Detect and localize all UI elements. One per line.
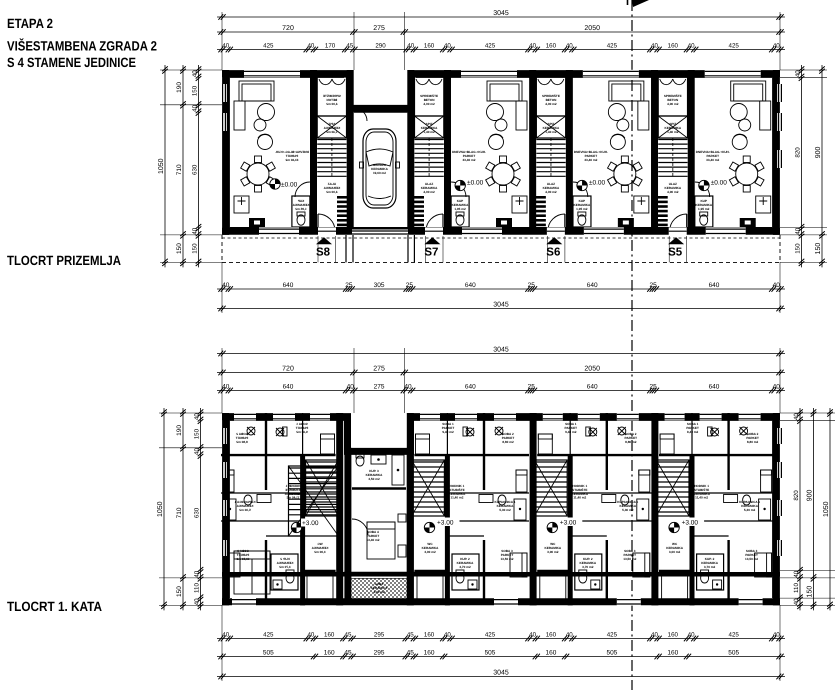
svg-text:150: 150 — [815, 243, 822, 255]
svg-text:40: 40 — [191, 70, 198, 77]
svg-text:+3.00: +3.00 — [437, 520, 454, 527]
svg-text:13,40 m2: 13,40 m2 — [366, 538, 379, 542]
svg-text:710: 710 — [176, 164, 183, 175]
svg-text:S5: S5 — [668, 247, 683, 259]
svg-text:150: 150 — [794, 243, 801, 254]
svg-text:3045: 3045 — [493, 346, 509, 353]
svg-text:190: 190 — [176, 82, 183, 93]
svg-text:150: 150 — [191, 85, 198, 96]
svg-text:1050: 1050 — [157, 501, 164, 517]
svg-text:425: 425 — [729, 631, 740, 638]
svg-text:150: 150 — [191, 243, 198, 254]
svg-text:40: 40 — [222, 42, 229, 49]
svg-text:295: 295 — [374, 631, 385, 638]
svg-text:640: 640 — [465, 282, 476, 289]
svg-text:160: 160 — [668, 42, 679, 49]
svg-text:40: 40 — [773, 42, 780, 49]
svg-text:40: 40 — [407, 42, 414, 49]
svg-text:900: 900 — [806, 489, 813, 501]
svg-text:640: 640 — [587, 282, 598, 289]
svg-text:190: 190 — [176, 425, 183, 436]
svg-text:305: 305 — [374, 282, 385, 289]
svg-text:±0.00: ±0.00 — [281, 182, 298, 189]
svg-text:160: 160 — [668, 631, 679, 638]
svg-text:45: 45 — [344, 649, 352, 656]
svg-text:40: 40 — [529, 631, 536, 638]
svg-text:40: 40 — [688, 631, 695, 638]
svg-text:820: 820 — [794, 147, 801, 158]
svg-text:640: 640 — [283, 383, 294, 390]
svg-text:40: 40 — [404, 383, 412, 390]
svg-text:160: 160 — [324, 631, 335, 638]
svg-text:160: 160 — [324, 649, 335, 656]
svg-text:640: 640 — [709, 282, 720, 289]
svg-text:150: 150 — [806, 586, 813, 598]
svg-text:720: 720 — [282, 365, 294, 372]
svg-text:425: 425 — [263, 42, 274, 49]
svg-text:25: 25 — [649, 383, 657, 390]
svg-text:630: 630 — [193, 507, 200, 518]
svg-text:710: 710 — [176, 507, 183, 518]
svg-text:40: 40 — [773, 282, 781, 289]
svg-text:150: 150 — [176, 586, 183, 597]
svg-text:25: 25 — [345, 282, 353, 289]
svg-text:40: 40 — [222, 282, 230, 289]
svg-text:45: 45 — [407, 631, 414, 638]
svg-text:40: 40 — [793, 598, 800, 605]
svg-text:25: 25 — [528, 282, 536, 289]
svg-text:40: 40 — [444, 42, 451, 49]
svg-text:160: 160 — [546, 42, 557, 49]
svg-text:2050: 2050 — [584, 365, 600, 372]
svg-text:425: 425 — [485, 42, 496, 49]
svg-text:40: 40 — [793, 413, 800, 420]
svg-text:3,50 m2: 3,50 m2 — [368, 477, 380, 481]
svg-text:425: 425 — [263, 631, 274, 638]
svg-text:S6: S6 — [546, 247, 560, 259]
svg-text:160: 160 — [546, 631, 557, 638]
svg-text:40: 40 — [773, 383, 781, 390]
svg-text:40: 40 — [566, 631, 573, 638]
svg-text:640: 640 — [465, 383, 476, 390]
svg-text:40: 40 — [444, 631, 451, 638]
svg-text:1050: 1050 — [158, 158, 165, 174]
svg-text:40: 40 — [191, 227, 198, 234]
svg-text:160: 160 — [667, 649, 678, 656]
svg-text:2050: 2050 — [584, 25, 600, 32]
svg-text:40: 40 — [773, 631, 780, 638]
svg-text:25: 25 — [528, 383, 536, 390]
svg-text:40: 40 — [793, 570, 800, 577]
svg-text:+3.00: +3.00 — [302, 520, 319, 527]
svg-text:820: 820 — [793, 490, 800, 501]
svg-text:40: 40 — [566, 42, 573, 49]
svg-text:900: 900 — [815, 146, 822, 158]
svg-text:1050: 1050 — [823, 501, 830, 517]
svg-text:±0.00: ±0.00 — [467, 180, 484, 187]
svg-text:425: 425 — [607, 42, 618, 49]
svg-text:TLOCRT 1. KATA: TLOCRT 1. KATA — [7, 599, 102, 614]
svg-text:160: 160 — [545, 649, 556, 656]
svg-text:VIŠESTAMBENA ZGRADA 2: VIŠESTAMBENA ZGRADA 2 — [7, 38, 157, 54]
svg-text:±0.00: ±0.00 — [711, 180, 728, 187]
svg-text:45: 45 — [345, 631, 352, 638]
svg-text:40: 40 — [688, 42, 695, 49]
svg-text:640: 640 — [587, 383, 598, 390]
svg-text:40: 40 — [222, 631, 229, 638]
svg-text:±0.00: ±0.00 — [589, 180, 606, 187]
svg-text:25: 25 — [406, 282, 414, 289]
svg-text:40: 40 — [651, 42, 658, 49]
svg-text:505: 505 — [728, 649, 739, 656]
svg-text:275: 275 — [373, 25, 385, 32]
svg-text:720: 720 — [282, 25, 294, 32]
svg-text:25: 25 — [649, 282, 657, 289]
svg-text:40: 40 — [529, 42, 536, 49]
svg-text:160: 160 — [424, 42, 435, 49]
svg-text:40: 40 — [651, 631, 658, 638]
svg-text:160: 160 — [424, 631, 435, 638]
svg-text:425: 425 — [485, 631, 496, 638]
svg-text:505: 505 — [606, 649, 617, 656]
svg-text:S7: S7 — [424, 247, 438, 259]
svg-text:3045: 3045 — [493, 10, 509, 17]
svg-text:45: 45 — [346, 42, 353, 49]
svg-text:505: 505 — [485, 649, 496, 656]
svg-text:170: 170 — [325, 42, 336, 49]
svg-text:4,40 m2: 4,40 m2 — [373, 590, 385, 594]
svg-text:640: 640 — [709, 383, 720, 390]
svg-text:TLOCRT PRIZEMLJA: TLOCRT PRIZEMLJA — [7, 253, 121, 268]
svg-text:40: 40 — [347, 383, 355, 390]
svg-text:40: 40 — [307, 631, 314, 638]
svg-text:S 4 STAMENE JEDINICE: S 4 STAMENE JEDINICE — [7, 55, 136, 70]
svg-text:275: 275 — [374, 383, 385, 390]
svg-text:+3.00: +3.00 — [560, 520, 577, 527]
svg-text:+3.00: +3.00 — [682, 520, 699, 527]
svg-text:640: 640 — [283, 282, 294, 289]
svg-text:110: 110 — [793, 583, 800, 593]
svg-text:630: 630 — [191, 164, 198, 175]
svg-text:40: 40 — [222, 383, 230, 390]
svg-text:160: 160 — [424, 649, 435, 656]
svg-text:S8: S8 — [316, 247, 331, 259]
svg-text:ETAPA 2: ETAPA 2 — [7, 16, 53, 31]
svg-text:425: 425 — [729, 42, 740, 49]
svg-text:40: 40 — [794, 227, 801, 234]
svg-text:110: 110 — [193, 583, 200, 593]
svg-text:290: 290 — [375, 42, 386, 49]
svg-text:40: 40 — [193, 598, 200, 605]
svg-text:150: 150 — [193, 428, 200, 439]
svg-text:505: 505 — [263, 649, 274, 656]
svg-text:40: 40 — [193, 413, 200, 420]
svg-text:45: 45 — [407, 649, 415, 656]
svg-text:40: 40 — [794, 70, 801, 77]
svg-text:19,60 m2: 19,60 m2 — [373, 171, 386, 175]
svg-text:3045: 3045 — [493, 669, 509, 676]
svg-text:40: 40 — [193, 448, 200, 455]
svg-text:40: 40 — [191, 104, 198, 111]
svg-text:295: 295 — [374, 649, 385, 656]
svg-text:425: 425 — [607, 631, 618, 638]
svg-text:40: 40 — [193, 570, 200, 577]
svg-text:275: 275 — [373, 365, 385, 372]
svg-text:150: 150 — [176, 243, 183, 254]
svg-text:3045: 3045 — [493, 301, 509, 308]
svg-text:40: 40 — [307, 42, 314, 49]
